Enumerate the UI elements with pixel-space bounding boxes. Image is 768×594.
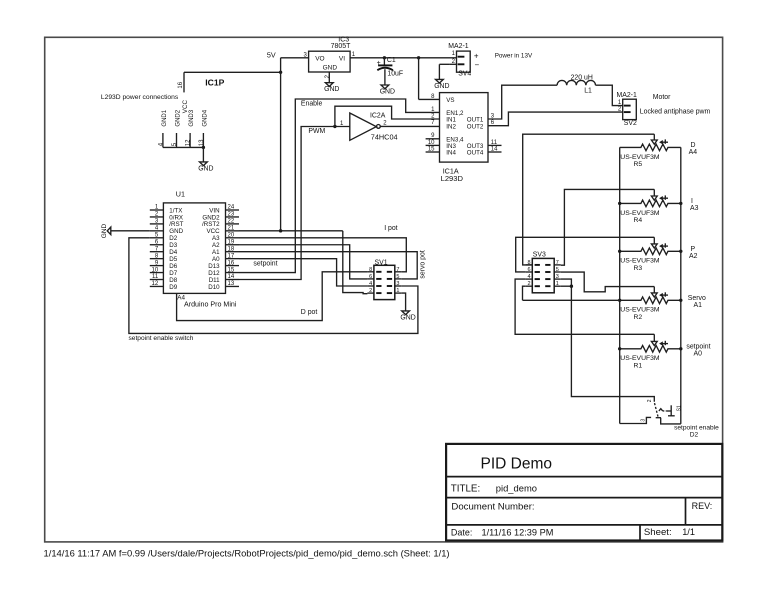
U1 pin 24 stub (VIN) <box>226 209 240 211</box>
svg-text:VS: VS <box>446 97 454 104</box>
connector SV2 body <box>623 99 637 119</box>
svg-text:18: 18 <box>228 246 235 252</box>
wire SV3 pin2 to R2 left lead <box>523 299 620 301</box>
outer drawing frame <box>45 37 723 542</box>
U1 pin 4 stub (GND) <box>150 230 164 232</box>
svg-text:R5: R5 <box>634 161 643 168</box>
SV3 pin 1 stub <box>554 285 561 287</box>
SV3 pin 3 stub <box>554 278 561 280</box>
inductor L1 220uH <box>557 80 595 85</box>
svg-text:PWM: PWM <box>308 128 325 135</box>
wire 5V output of 7805 <box>281 57 309 59</box>
SV1 pin 4 stub <box>367 285 374 287</box>
svg-text:L1: L1 <box>584 88 592 95</box>
wire Enable: U1 D12 to EN1,2 <box>239 99 440 273</box>
SV3 contact row 2 <box>535 278 540 280</box>
svg-text:7: 7 <box>396 267 399 273</box>
svg-text:6: 6 <box>528 267 531 273</box>
svg-text:A3: A3 <box>690 205 699 212</box>
svg-text:12: 12 <box>186 139 192 146</box>
svg-text:11: 11 <box>152 274 159 280</box>
svg-text:1/11/16 12:39 PM: 1/11/16 12:39 PM <box>482 527 554 537</box>
svg-text:D9: D9 <box>169 284 177 291</box>
svg-text:VO: VO <box>315 55 324 62</box>
svg-text:A0: A0 <box>212 256 220 263</box>
wire switch contact to right rail <box>661 418 681 424</box>
svg-text:VI: VI <box>339 55 345 62</box>
U1 pin 19 stub (A2) <box>226 244 240 246</box>
U1 pin 2 stub (0/RX) <box>150 216 164 218</box>
U1 pin 18 stub (A1) <box>226 251 240 253</box>
svg-text:20: 20 <box>228 233 235 239</box>
SV1 pin 5 stub <box>395 278 402 280</box>
svg-text:D11: D11 <box>209 277 220 284</box>
svg-text:OUT4: OUT4 <box>467 150 484 157</box>
wire SV3 pin2 down to rail <box>523 286 526 300</box>
inverter IC2A 74HC04 triangle <box>350 113 377 140</box>
svg-text:US-EVUF3M: US-EVUF3M <box>620 258 660 265</box>
svg-text:R1: R1 <box>634 362 643 369</box>
wire R2 wiper (Servo) to SV3 pin5 <box>561 272 655 292</box>
wire SV4 pin2 to gnd <box>439 63 450 65</box>
svg-text:A1: A1 <box>212 249 220 256</box>
wire VCC to SV1 pin2 <box>343 231 368 294</box>
svg-text:1/14/16 11:17 AM f=0.99 /Use: 1/14/16 11:17 AM f=0.99 /Users/dale/Proj… <box>44 548 450 559</box>
svg-text:I pot: I pot <box>384 225 397 232</box>
potentiometer R3 (P pot) <box>620 248 681 255</box>
SV1 pin 6 stub <box>367 278 374 280</box>
wire inverter output to IN2 <box>380 125 439 127</box>
svg-text:0/RX: 0/RX <box>169 214 183 221</box>
connector SV4 body <box>457 51 471 72</box>
svg-text:Sheet:: Sheet: <box>644 527 672 538</box>
SV4 pin1 contact <box>458 56 465 58</box>
svg-text:D7: D7 <box>169 270 177 277</box>
U1 pin 20 stub (A3) <box>226 237 240 239</box>
wire OUT1 to L1 <box>488 85 557 119</box>
U1 pin 22 stub (/RST2) <box>226 223 240 225</box>
svg-text:R2: R2 <box>634 314 643 321</box>
svg-text:GND: GND <box>323 65 338 72</box>
svg-text:5: 5 <box>556 267 559 273</box>
wire U1 A4 (D pot) to SV1 pin8 <box>177 272 368 321</box>
SV3 contact row 3 <box>535 285 540 287</box>
stub EN3,4 pin 9 <box>426 138 440 140</box>
SV1 pin 3 stub <box>395 285 402 287</box>
svg-text:US-EVUF3M: US-EVUF3M <box>620 210 660 217</box>
svg-text:7: 7 <box>556 260 559 266</box>
wire left rail of pots <box>619 147 621 423</box>
U1 pin 21 stub (VCC) <box>226 230 240 232</box>
SV3 pin 5 stub <box>554 271 561 273</box>
svg-text:VCC: VCC <box>207 228 221 235</box>
U1 pin 10 stub (D7) <box>150 272 164 274</box>
U1 pin 6 stub (D3) <box>150 244 164 246</box>
svg-text:TITLE:: TITLE: <box>451 483 480 494</box>
regulator IC3 7805 body <box>309 51 351 72</box>
junction right rail <box>679 347 682 350</box>
svg-text:PID Demo: PID Demo <box>481 455 553 472</box>
stub IN4 pin 15 <box>426 151 440 153</box>
svg-text:5V: 5V <box>267 50 276 59</box>
wire OUT2 to SV2 pin2 <box>488 112 623 126</box>
wire U1 GND pin4 <box>111 230 150 232</box>
svg-text:D8: D8 <box>169 277 177 284</box>
SV1 contact row 0 <box>376 271 381 273</box>
wire left rail to switch throw 3 <box>620 417 651 423</box>
svg-text:1: 1 <box>452 51 456 57</box>
svg-text:D4: D4 <box>169 249 177 256</box>
U1 pin 13 stub (D10) <box>226 285 240 287</box>
svg-text:10uF: 10uF <box>387 70 403 77</box>
svg-text:SV3: SV3 <box>533 252 546 259</box>
svg-text:US-EVUF3M: US-EVUF3M <box>620 307 660 314</box>
svg-text:/RST2: /RST2 <box>202 221 220 228</box>
svg-text:6: 6 <box>369 274 372 280</box>
svg-text:24: 24 <box>228 205 235 211</box>
svg-text:R3: R3 <box>634 265 643 272</box>
svg-text:GND: GND <box>324 86 339 93</box>
potentiometer R2 (Servo pot) <box>620 297 681 304</box>
svg-text:D13: D13 <box>208 263 220 270</box>
SV2 pin1 contact <box>624 105 631 107</box>
svg-text:19: 19 <box>228 239 235 245</box>
svg-text:IN2: IN2 <box>446 123 456 130</box>
svg-text:U1: U1 <box>176 190 185 199</box>
svg-text:1: 1 <box>352 52 356 58</box>
wire 7805 VI to SV4 pin1 <box>350 57 456 59</box>
SV1 contact row 2 <box>376 285 381 287</box>
svg-text:GND2: GND2 <box>176 109 182 126</box>
svg-text:1: 1 <box>556 281 559 287</box>
SV3 pin 7 stub <box>554 264 561 266</box>
svg-text:4: 4 <box>528 274 531 280</box>
switch NO contact post <box>670 405 672 416</box>
ground below 7805 <box>325 83 333 87</box>
svg-text:GND4: GND4 <box>202 109 208 126</box>
U1 pin 5 stub (D2) <box>150 237 164 239</box>
SV1 contact row 1 <box>376 278 381 280</box>
ground below C1 <box>381 85 389 89</box>
SV3 pin 4 stub <box>526 278 533 280</box>
svg-text:17: 17 <box>228 253 235 259</box>
svg-text:A4: A4 <box>177 295 185 302</box>
wire R5 wiper (D) to SV3 pin8 <box>523 134 655 265</box>
junction right rail <box>679 250 682 253</box>
wire U1 A1 to SV1 pin5 <box>239 252 417 279</box>
svg-text:1/TX: 1/TX <box>169 207 182 214</box>
svg-text:D5: D5 <box>169 256 177 263</box>
U1 pin 16 stub (D13) <box>226 265 240 267</box>
pin VCC of IC1P (pin 16) <box>183 72 185 92</box>
svg-text:setpoint: setpoint <box>686 343 710 350</box>
junction right rail <box>679 202 682 205</box>
svg-text:US-EVUF3M: US-EVUF3M <box>620 154 660 161</box>
U1 pin 15 stub (D12) <box>226 272 240 274</box>
wire SV3 pin3/pin1 to switch common <box>561 279 655 402</box>
svg-text:GND: GND <box>101 223 108 238</box>
wire R3 wiper (P) to SV3 pin6 <box>516 237 655 272</box>
svg-text:GND: GND <box>400 314 415 321</box>
svg-text:setpoint: setpoint <box>253 260 277 267</box>
svg-text:VCC: VCC <box>182 99 189 113</box>
svg-text:4: 4 <box>369 281 372 287</box>
svg-text:A2: A2 <box>689 253 698 260</box>
svg-text:S1: S1 <box>677 405 683 411</box>
SV3 pin 6 stub <box>526 271 533 273</box>
SV1 pin 7 stub <box>395 271 402 273</box>
SV1 contact row 3 <box>376 292 381 294</box>
svg-text:Document Number:: Document Number: <box>451 502 534 513</box>
svg-text:D: D <box>691 142 696 149</box>
svg-text:GND: GND <box>169 228 183 235</box>
svg-text:13: 13 <box>199 139 205 146</box>
svg-text:A3: A3 <box>212 235 220 242</box>
svg-text:P: P <box>691 246 696 253</box>
svg-text:1: 1 <box>396 288 399 294</box>
svg-text:74HC04: 74HC04 <box>371 132 398 141</box>
SV2 pin2 contact <box>624 111 631 113</box>
svg-text:L293D: L293D <box>441 174 464 183</box>
switch NO contact base <box>668 415 675 417</box>
svg-text:23: 23 <box>228 212 235 218</box>
wire SV4 to VS vertical <box>418 58 420 100</box>
junction C1 top <box>383 56 386 59</box>
svg-text:GND: GND <box>198 165 213 172</box>
SV4 pin2 contact <box>458 63 465 65</box>
svg-text:7: 7 <box>431 120 435 126</box>
svg-text:SV4: SV4 <box>458 71 471 78</box>
switch linkage (dashed) <box>663 410 667 412</box>
svg-text:21: 21 <box>228 226 235 232</box>
U1 pin 3 stub (/RST) <box>150 223 164 225</box>
U1 pin 7 stub (D4) <box>150 251 164 253</box>
wire PWM branch to IN1 <box>335 106 440 126</box>
svg-text:US-EVUF3M: US-EVUF3M <box>620 355 660 362</box>
svg-text:GND: GND <box>380 88 395 95</box>
stub OUT4 pin 14 <box>488 151 502 153</box>
U1 pin 9 stub (D6) <box>150 265 164 267</box>
SV1 pin 8 stub <box>367 271 374 273</box>
junction right rail <box>679 299 682 302</box>
junction left rail <box>618 347 621 350</box>
svg-text:D6: D6 <box>169 263 177 270</box>
U1 pin 14 stub (D11) <box>226 279 240 281</box>
wire PWM: U1 D11 to inverter input <box>239 127 350 280</box>
svg-text:servo pot: servo pot <box>419 250 426 278</box>
svg-text:C1: C1 <box>387 57 396 64</box>
U1 pin 12 stub (D9) <box>150 285 164 287</box>
svg-text:Date:: Date: <box>451 527 473 537</box>
U1 pin 23 stub (GND2) <box>226 216 240 218</box>
wire U1 A3 to SV1 pin7 <box>239 238 406 272</box>
wire SV1 pin1 to ground <box>401 293 405 311</box>
svg-text:MA2-1: MA2-1 <box>448 43 468 50</box>
svg-text:8: 8 <box>369 267 372 273</box>
wire down to ground <box>438 64 440 79</box>
svg-text:REV:: REV: <box>692 501 713 511</box>
wire L1 to SV2 pin1 <box>596 85 623 105</box>
svg-text:Servo: Servo <box>688 295 706 302</box>
svg-text:Enable: Enable <box>301 100 323 107</box>
SV3 pin 8 stub <box>526 264 533 266</box>
svg-text:13: 13 <box>228 281 235 287</box>
switch moving contact bar <box>656 417 661 419</box>
pin GND1 lead <box>162 133 164 147</box>
U1 pin 11 stub (D8) <box>150 279 164 281</box>
ground below SV4 <box>436 79 444 83</box>
svg-text:setpoint enable switch: setpoint enable switch <box>129 335 194 342</box>
switch S1 lever (dashed) <box>655 403 659 417</box>
mcu U1 Arduino Pro Mini body <box>163 203 225 294</box>
svg-text:2: 2 <box>325 74 331 78</box>
svg-text:14: 14 <box>228 274 235 280</box>
svg-text:GND: GND <box>434 83 449 90</box>
svg-text:D2: D2 <box>169 235 177 242</box>
svg-text:220 uH: 220 uH <box>571 75 593 82</box>
inverter output bubble <box>377 125 381 129</box>
svg-text:22: 22 <box>228 219 235 225</box>
ground arrow at U1 pin 4 <box>107 227 111 235</box>
U1 pin 17 stub (A0) <box>226 258 240 260</box>
svg-text:L293D power connections: L293D power connections <box>101 94 179 101</box>
junction VCC/5V <box>279 229 282 232</box>
svg-text:Motor: Motor <box>653 94 671 101</box>
svg-text:MA2-1: MA2-1 <box>617 92 637 99</box>
potentiometer R1 (setpoint pot) <box>620 346 681 353</box>
SV3 contact row 1 <box>535 271 540 273</box>
svg-text:5: 5 <box>172 142 178 146</box>
svg-text:I: I <box>691 198 693 205</box>
potentiometer R5 (D pot) <box>620 144 681 151</box>
svg-text:VIN: VIN <box>209 207 219 214</box>
svg-text:IN4: IN4 <box>446 150 456 157</box>
wire gnd bus <box>163 146 204 148</box>
SV3 contact row 0 <box>535 264 540 266</box>
svg-text:5: 5 <box>396 274 399 280</box>
pin GND3 lead <box>189 133 191 147</box>
wire 7805 GND pin <box>328 72 330 83</box>
switch actuator caret <box>659 409 663 411</box>
svg-text:Locked antiphase pwm: Locked antiphase pwm <box>640 108 711 115</box>
svg-text:D3: D3 <box>169 242 177 249</box>
wire U1 VCC row <box>239 230 343 232</box>
svg-text:8: 8 <box>528 260 531 266</box>
svg-text:Arduino Pro Mini: Arduino Pro Mini <box>184 301 237 309</box>
potentiometer R4 (I pot) <box>620 200 681 207</box>
svg-text:GND3: GND3 <box>189 109 195 126</box>
svg-text:A1: A1 <box>694 302 703 309</box>
wire right rail of pots <box>680 147 682 424</box>
junction SV4 feed <box>417 56 420 59</box>
junction PWM branch <box>333 125 336 128</box>
ground below SV1 <box>402 311 410 315</box>
svg-text:2: 2 <box>528 281 531 287</box>
ground below IC1P <box>200 162 208 166</box>
junction left rail <box>618 250 621 253</box>
svg-text:−: − <box>475 60 480 69</box>
wire U1 A0 (setpoint) to SV1 pin4 <box>239 259 367 286</box>
svg-text:/RST: /RST <box>169 221 183 228</box>
title block <box>446 444 722 541</box>
wire R4 wiper (I) to SV3 pin7 <box>561 189 655 265</box>
pin GND2 lead <box>176 133 178 147</box>
wire to ground <box>202 147 204 161</box>
svg-text:D2: D2 <box>690 431 699 438</box>
svg-text:A0: A0 <box>694 350 703 357</box>
capacitor C1 top plate <box>378 64 392 66</box>
junction SV3 pin1/pin3 <box>570 285 573 288</box>
svg-text:3: 3 <box>641 419 647 422</box>
svg-text:2: 2 <box>647 399 653 402</box>
driver IC1A L293D body <box>440 93 489 163</box>
junction left rail <box>618 202 621 205</box>
svg-text:+: + <box>377 60 381 67</box>
svg-text:Power in 13V: Power in 13V <box>495 53 533 60</box>
svg-text:1/1: 1/1 <box>682 527 695 537</box>
svg-text:SV2: SV2 <box>624 120 637 127</box>
stub OUT3 pin 11 <box>488 144 502 146</box>
U1 pin 1 stub (1/TX) <box>150 209 164 211</box>
U1 pin 8 stub (D5) <box>150 258 164 260</box>
svg-text:10: 10 <box>152 267 159 273</box>
wire R1 wiper (setpoint) to SV3 pin4 <box>515 279 654 334</box>
svg-text:2: 2 <box>383 120 387 126</box>
wire 5V rail to IC1P VCC <box>184 71 281 73</box>
wire 5V vertical to U1 VCC <box>280 58 282 231</box>
SV3 pin 2 stub <box>526 285 533 287</box>
svg-text:3: 3 <box>556 274 559 280</box>
svg-text:7805T: 7805T <box>331 43 352 50</box>
stub IN3 pin 10 <box>426 144 440 146</box>
svg-text:15: 15 <box>228 267 235 273</box>
SV1 pin 2 stub <box>367 292 374 294</box>
svg-text:GND1: GND1 <box>162 109 168 126</box>
svg-text:IC2A: IC2A <box>370 112 386 119</box>
capacitor C1 bottom plate (polarized arc) <box>377 68 393 70</box>
svg-text:IC1P: IC1P <box>205 77 224 87</box>
svg-text:16: 16 <box>228 260 235 266</box>
svg-text:R4: R4 <box>634 217 643 224</box>
svg-text:4: 4 <box>159 142 165 146</box>
wire SV3 pin1 <box>561 285 572 287</box>
connector SV3 body <box>532 258 554 292</box>
capacitor C1 top lead <box>383 58 385 66</box>
svg-text:GND2: GND2 <box>202 214 220 221</box>
svg-text:A4: A4 <box>689 149 698 156</box>
SV1 pin 1 stub <box>395 292 402 294</box>
SV4 pin2 stub <box>450 63 457 65</box>
svg-text:A2: A2 <box>212 242 220 249</box>
pin GND4 lead <box>202 133 204 147</box>
svg-text:3: 3 <box>396 281 399 287</box>
junction 5V <box>279 71 282 74</box>
svg-text:D10: D10 <box>208 284 220 291</box>
junction left rail <box>618 299 621 302</box>
wire U1 D2 to SV1 pin3 (setpoint enable switch) <box>129 238 418 334</box>
junction gnd bus <box>202 146 205 149</box>
switch NO contact lead <box>666 410 671 412</box>
svg-text:2: 2 <box>369 288 372 294</box>
svg-text:D pot: D pot <box>301 309 318 316</box>
svg-text:OUT2: OUT2 <box>467 123 484 130</box>
wire into VS pin 8 <box>419 98 440 100</box>
wire U1 A2 to SV1 pin6 <box>239 245 367 279</box>
svg-text:16: 16 <box>178 81 184 88</box>
capacitor C1 bottom lead <box>384 69 386 85</box>
connector SV1 body <box>374 265 395 299</box>
svg-text:D12: D12 <box>208 270 220 277</box>
